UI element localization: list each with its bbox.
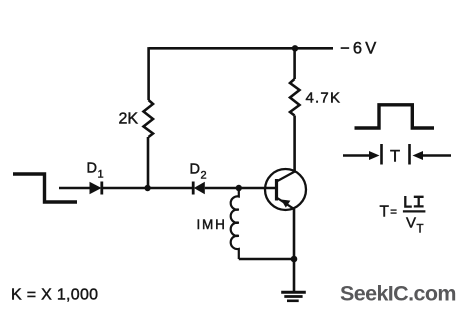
svg-text:D: D bbox=[87, 161, 97, 177]
wire to ground bbox=[293, 259, 296, 292]
arrow left pointing right bbox=[343, 151, 380, 160]
wire left branch top (rail corner down to 2K resistor) bbox=[147, 47, 150, 100]
tick right of T interval bbox=[408, 144, 411, 165]
svg-text:−6V: −6V bbox=[340, 40, 379, 58]
wire emitter down bbox=[293, 209, 296, 259]
inductor 1MH bbox=[231, 188, 239, 259]
wire D1 to D2 bbox=[102, 187, 193, 190]
output pulse waveform bbox=[355, 105, 435, 128]
wire 2K bottom to main node bbox=[147, 137, 150, 188]
diode D2 bbox=[193, 182, 205, 195]
node inductor junction bbox=[236, 185, 242, 191]
node emitter junction bbox=[291, 256, 298, 263]
svg-text:V: V bbox=[406, 214, 416, 231]
svg-text:1: 1 bbox=[98, 169, 104, 181]
resistor 4.7K bbox=[290, 79, 300, 116]
wire 4.7K to collector bbox=[293, 116, 296, 172]
wire D2 to base bbox=[205, 187, 277, 190]
resistor 2K bbox=[144, 100, 154, 137]
svg-text:2K: 2K bbox=[119, 111, 139, 128]
svg-text:T: T bbox=[390, 148, 400, 166]
arrow right pointing left bbox=[413, 151, 452, 160]
wire top supply rail bbox=[149, 47, 333, 50]
ground bbox=[281, 292, 306, 301]
svg-text:T: T bbox=[417, 223, 424, 235]
svg-text:4.7K: 4.7K bbox=[306, 90, 342, 107]
node 2K junction bbox=[144, 185, 150, 191]
svg-text:SeekIC.com: SeekIC.com bbox=[340, 282, 456, 306]
tick left of T interval bbox=[380, 144, 383, 165]
svg-text:D: D bbox=[190, 162, 200, 178]
wire rail down to 4.7K bbox=[293, 48, 296, 79]
label D1 bbox=[87, 161, 104, 181]
wire input to diode D1 bbox=[59, 187, 90, 190]
formula T = LI / VT bbox=[380, 196, 426, 235]
svg-text:=: = bbox=[390, 206, 397, 218]
diode D1 bbox=[90, 182, 102, 195]
svg-text:T: T bbox=[380, 204, 390, 221]
svg-text:2: 2 bbox=[201, 170, 207, 182]
svg-text:IMH: IMH bbox=[197, 217, 227, 232]
label D2 bbox=[190, 162, 207, 182]
wire inductor bottom to emitter node bbox=[239, 258, 294, 261]
svg-text:K = X 1,000: K = X 1,000 bbox=[11, 287, 98, 304]
input step waveform bbox=[13, 174, 77, 202]
node junction on rail bbox=[292, 45, 298, 51]
transistor Q1 bbox=[265, 169, 306, 210]
